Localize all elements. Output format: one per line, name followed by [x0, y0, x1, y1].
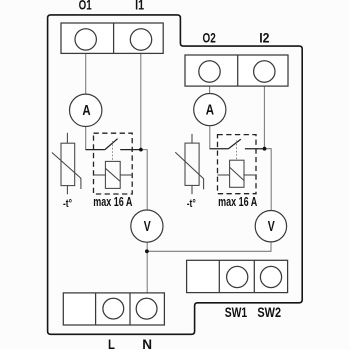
svg-text:V: V — [144, 218, 151, 234]
svg-text:max 16 A: max 16 A — [93, 196, 132, 210]
svg-text:I2: I2 — [259, 30, 269, 46]
svg-text:O2: O2 — [202, 30, 215, 46]
svg-text:A: A — [206, 101, 215, 118]
svg-text:I1: I1 — [135, 0, 144, 13]
svg-text:A: A — [82, 101, 91, 118]
svg-text:max 16 A: max 16 A — [218, 196, 257, 210]
svg-text:V: V — [268, 219, 275, 235]
svg-text:-t°: -t° — [63, 198, 72, 210]
svg-text:N: N — [142, 337, 152, 350]
svg-text:SW2: SW2 — [257, 305, 281, 321]
svg-text:-t°: -t° — [187, 198, 196, 210]
svg-text:O1: O1 — [79, 0, 92, 13]
svg-text:SW1: SW1 — [225, 304, 248, 320]
svg-text:L: L — [108, 336, 115, 350]
